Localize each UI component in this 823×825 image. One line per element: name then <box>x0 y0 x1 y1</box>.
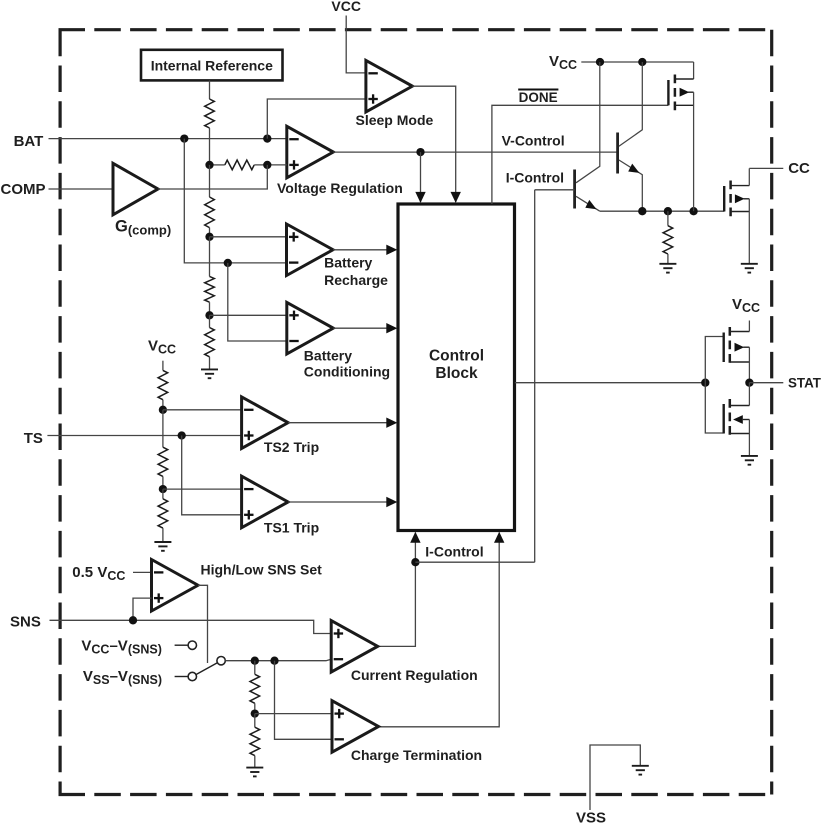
resistor R8 <box>158 499 168 528</box>
wire STAT output <box>749 382 783 384</box>
wire R6 to TS2 tap <box>162 400 164 410</box>
wire R9 to termination tap <box>254 703 256 713</box>
svg-text:Battery: Battery <box>324 255 372 271</box>
wire junction to R9 <box>254 661 256 675</box>
wire branch to U5 - input <box>228 263 287 341</box>
resistor R9 <box>250 674 260 703</box>
svg-text:SNS: SNS <box>10 614 41 631</box>
internal reference block <box>141 50 283 81</box>
wire R2 right lead to U2 + input <box>254 164 287 166</box>
svg-text:High/Low SNS Set: High/Low SNS Set <box>201 562 323 578</box>
label Battery Recharge <box>324 255 388 288</box>
label Sleep Mode <box>356 112 434 128</box>
node R2 right junction <box>263 161 271 169</box>
node R2 left junction <box>205 161 213 169</box>
label TS2 Trip <box>264 439 319 455</box>
transistor Q2 <box>618 62 643 211</box>
wire switch common to U9 - input <box>225 659 331 660</box>
wire node REF to R3 <box>209 165 211 197</box>
switch S1 wiper <box>196 657 225 675</box>
wire I-Control riser to Q1 base <box>534 190 536 562</box>
label Battery Conditioning <box>304 347 390 379</box>
node termination tap <box>251 709 259 717</box>
svg-text:TS1 Trip: TS1 Trip <box>264 520 319 536</box>
node rail junction 2 <box>664 207 672 215</box>
arrow sleep-mode into control block <box>451 192 461 203</box>
ground TS divider <box>154 542 171 551</box>
resistor R6 <box>158 370 168 399</box>
mosfet M1 <box>668 62 693 211</box>
op-amp U9 Current Regulation <box>331 621 378 673</box>
arrow charge termination into control block <box>494 532 504 543</box>
mosfet M2 <box>724 168 749 263</box>
svg-text:VCC: VCC <box>331 0 361 14</box>
label VCC (STAT) <box>732 296 760 315</box>
arrow I-Control into control block <box>410 532 420 543</box>
op-amp U5 Battery Conditioning <box>287 302 334 354</box>
wire VSS to internal ground <box>590 745 640 810</box>
label V-Control <box>502 132 565 148</box>
wire tap to U6 - input <box>163 409 242 411</box>
wire control block to STAT gates <box>515 382 706 384</box>
terminal VSS-V(SNS) <box>188 672 196 680</box>
label VCC (driver) <box>549 53 577 72</box>
op-amp U6 TS2 Trip <box>242 397 289 449</box>
svg-text:Conditioning: Conditioning <box>304 364 390 380</box>
label I-Control <box>506 169 564 185</box>
node SNS junction <box>129 616 137 624</box>
node BAT junction 1 <box>180 134 188 142</box>
wire U8 output to switch <box>198 585 208 663</box>
wire emitter rail to M2 gate <box>600 210 724 212</box>
label Charge Termination <box>351 747 482 763</box>
node I-Control junction <box>411 558 419 566</box>
arrow U5 into control block <box>386 323 397 333</box>
wire BAT branch down to U4 - input <box>184 139 286 263</box>
svg-text:COMP: COMP <box>1 181 46 198</box>
wire R5 to ground <box>209 357 211 370</box>
wire U4 output <box>333 249 387 251</box>
node V-Control branch <box>416 148 424 156</box>
svg-text:Recharge: Recharge <box>324 272 388 288</box>
svg-text:Sleep Mode: Sleep Mode <box>356 112 434 128</box>
wire 0.5VCC to U8 - input <box>133 571 152 573</box>
resistor R3 <box>205 197 215 228</box>
wire VCC stub to R6 <box>162 361 164 371</box>
svg-text:TS2 Trip: TS2 Trip <box>264 439 319 455</box>
wire sleep-mode output to control block <box>412 86 455 202</box>
svg-text:Control: Control <box>429 347 484 364</box>
op-amp U10 Charge Termination <box>332 701 379 753</box>
wire charge termination output to control block <box>378 533 499 727</box>
wire CC output <box>749 167 783 169</box>
mosfet M4 <box>724 383 750 456</box>
wire R4 to conditioning tap <box>209 302 211 315</box>
wire tap to U5 + input <box>210 314 287 316</box>
ground R10 <box>246 768 263 777</box>
wire VCC rail <box>581 61 693 63</box>
wire current regulation output to I-Control node <box>378 533 415 647</box>
svg-text:Voltage Regulation: Voltage Regulation <box>277 180 403 196</box>
ground M2 source <box>741 264 758 273</box>
wire tap to U4 + input <box>210 236 287 238</box>
wire R8 to ground <box>162 528 164 542</box>
svg-text:Battery: Battery <box>304 347 352 363</box>
resistor R1 <box>205 99 215 128</box>
wire U6 output <box>288 422 386 424</box>
ground M4 source <box>741 456 758 465</box>
wire TS line to U6 + input <box>47 435 241 437</box>
wire tap to R5 <box>209 315 211 327</box>
wire R1 to node REF <box>209 128 211 165</box>
label Voltage Regulation <box>277 180 403 196</box>
wire G(comp) output to U2 + node <box>158 165 267 189</box>
resistor R11 <box>663 226 673 254</box>
wire DONE from control block to M1 gate <box>492 105 669 204</box>
mosfet M3 <box>724 321 750 383</box>
arrow U6 into control block <box>386 418 397 428</box>
wire V-Control into control block <box>420 152 422 202</box>
op-amp U3 G(comp) <box>113 163 158 215</box>
label I-Control (bottom) <box>425 544 483 560</box>
svg-text:BAT: BAT <box>14 133 44 150</box>
node branch junction <box>224 259 232 267</box>
wire U7 output <box>288 501 386 503</box>
node TS2 tap <box>159 406 167 414</box>
ground VSS <box>632 766 649 775</box>
ground divider <box>201 369 218 378</box>
wire tap to U7 - input <box>163 488 242 490</box>
node switch common junction 2 <box>270 657 278 665</box>
resistor R2 <box>225 160 254 170</box>
svg-text:TS: TS <box>24 430 43 447</box>
wire tap to U10 + input <box>255 713 332 715</box>
port label VCC (top) <box>331 0 361 14</box>
op-amp U8 High/Low SNS Set <box>152 560 199 612</box>
wire U5 output <box>333 327 386 329</box>
svg-text:DONE: DONE <box>519 90 558 105</box>
label VSS-V(SNS) <box>83 668 162 687</box>
wire R3 to recharge tap <box>209 228 211 237</box>
svg-text:VSS: VSS <box>576 810 606 825</box>
control block <box>398 204 515 531</box>
port label SNS <box>10 614 41 631</box>
wire STAT gate bracket <box>705 337 723 434</box>
port label TS <box>24 430 43 447</box>
wire V-Control from U2 output to Q2 base <box>333 151 617 153</box>
port label CC <box>788 160 810 177</box>
label TS1 Trip <box>264 520 319 536</box>
wire R2 left lead <box>210 164 225 166</box>
resistor R5 <box>205 328 215 357</box>
svg-text:V-Control: V-Control <box>502 132 565 148</box>
wire tap to R10 <box>254 714 256 728</box>
wire switch common to U10 - input <box>275 661 333 740</box>
op-amp U4 Battery Recharge <box>287 224 334 276</box>
label VCC-V(SNS) <box>81 638 161 657</box>
op-amp U1 Sleep Mode <box>366 60 413 112</box>
label DONE with overline <box>518 90 558 105</box>
wire VCC to sleep-mode inverting input <box>346 16 366 73</box>
resistor R4 <box>205 276 215 302</box>
resistor R7 <box>158 447 168 476</box>
node STAT gate junction <box>701 379 709 387</box>
wire SNS line <box>50 620 332 633</box>
wire rail to R11 <box>667 211 669 226</box>
wire VCC-V(SNS) lead <box>175 644 189 646</box>
wire internal reference to R1 <box>209 80 211 99</box>
terminal VCC-V(SNS) <box>188 641 196 649</box>
wire R10 to ground <box>254 756 256 768</box>
node STAT output junction <box>745 379 753 387</box>
svg-text:I-Control: I-Control <box>425 544 483 560</box>
wire tap to R8 <box>162 489 164 499</box>
wire I-Control to Q1 base <box>535 189 575 191</box>
svg-text:Charge Termination: Charge Termination <box>351 747 482 763</box>
wire U8 + input from SNS <box>133 598 152 620</box>
svg-text:I-Control: I-Control <box>506 169 564 185</box>
node rail junction 1 <box>638 207 646 215</box>
svg-text:Block: Block <box>435 365 478 382</box>
arrow V-Control into control block <box>415 192 425 203</box>
port label BAT <box>14 133 44 150</box>
label High/Low SNS Set <box>201 562 323 578</box>
wire TS branch to U7 + input <box>182 436 242 515</box>
node TS junction <box>178 431 186 439</box>
svg-text:STAT: STAT <box>788 376 822 391</box>
node VCC rail junction 2 <box>638 58 646 66</box>
arrow U4 into control block <box>386 245 397 255</box>
node BAT junction 2 <box>263 134 271 142</box>
ground R11 <box>659 264 676 273</box>
label 0.5 VCC <box>72 564 125 583</box>
node switch common junction 1 <box>251 657 259 665</box>
op-amp U7 TS1 Trip <box>242 476 289 528</box>
wire tap to R7 <box>162 410 164 447</box>
wire BAT feedback to sleep-mode + input <box>267 99 366 139</box>
wire COMP input <box>49 188 114 190</box>
wire VSS-V(SNS) lead <box>175 676 189 678</box>
op-amp U2 Voltage Regulation <box>287 126 334 178</box>
node VCC rail junction 1 <box>596 58 604 66</box>
label VCC (TS divider) <box>148 338 176 357</box>
port label COMP <box>1 181 46 198</box>
resistor R10 <box>250 727 260 755</box>
svg-text:Current Regulation: Current Regulation <box>351 667 478 683</box>
arrow U7 into control block <box>386 497 397 507</box>
svg-text:CC: CC <box>788 160 810 177</box>
wire R11 to ground <box>667 254 669 264</box>
label Current Regulation <box>351 667 478 683</box>
node TS1 tap <box>159 485 167 493</box>
label G(comp) <box>115 218 171 238</box>
transistor Q1 <box>575 62 600 211</box>
wire tap to R4 <box>209 237 211 277</box>
svg-text:Internal Reference: Internal Reference <box>151 57 273 73</box>
node recharge tap <box>205 233 213 241</box>
wire R7 to TS1 tap <box>162 476 164 489</box>
port label VSS <box>576 810 606 825</box>
port label STAT <box>788 376 822 391</box>
wire I-Control node to riser <box>415 561 534 563</box>
node conditioning tap <box>205 311 213 319</box>
node rail junction 3 <box>689 207 697 215</box>
wire BAT line <box>49 138 287 140</box>
